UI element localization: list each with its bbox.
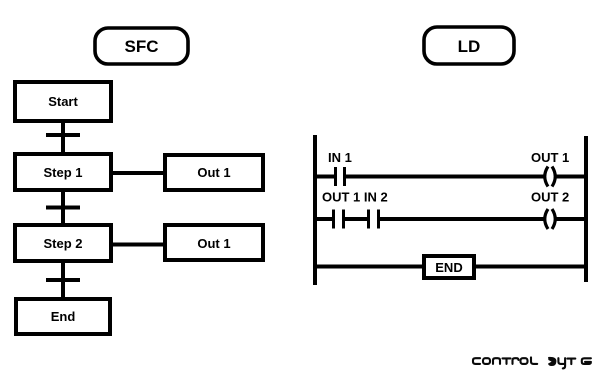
svg-text:Out 1: Out 1 <box>197 165 230 180</box>
logo letter e <box>582 358 591 364</box>
svg-text:IN 1: IN 1 <box>328 150 352 165</box>
contact OUT 1 <box>334 210 344 229</box>
logo letter c <box>473 358 480 364</box>
LD title badge <box>424 27 514 64</box>
transition T2 <box>46 206 80 210</box>
ladder right power rail <box>584 136 588 282</box>
svg-text:OUT 1: OUT 1 <box>531 150 569 165</box>
step box Start <box>15 82 111 121</box>
wire Start to Step 1 <box>61 121 65 154</box>
svg-text:LD: LD <box>458 37 481 56</box>
rung 3 wire left <box>313 265 424 269</box>
svg-text:Step 2: Step 2 <box>43 236 82 251</box>
svg-text:Step 1: Step 1 <box>43 165 82 180</box>
logo letter l <box>531 357 537 364</box>
transition T1 <box>46 133 80 137</box>
logo letter r <box>513 358 519 364</box>
contact IN 1 <box>336 167 345 186</box>
ladder left power rail <box>313 135 317 285</box>
svg-text:SFC: SFC <box>125 37 159 56</box>
logo control byte <box>473 357 591 368</box>
wire Step 2 to Out 1 <box>111 243 167 247</box>
svg-text:OUT 2: OUT 2 <box>531 190 569 205</box>
step box Step 1 <box>15 154 111 190</box>
action box Out 1 (upper) <box>165 155 263 190</box>
logo letter o <box>521 358 528 364</box>
step box Step 2 <box>15 225 111 261</box>
contact IN 2 <box>369 210 379 229</box>
coil OUT 2 <box>545 209 556 229</box>
step box End <box>16 299 110 334</box>
svg-text:END: END <box>435 260 462 275</box>
wire Step 1 to Step 2 <box>61 190 65 225</box>
logo letter t <box>503 358 511 364</box>
wire Step 1 to Out 1 <box>111 171 167 175</box>
logo letter b (bite mark) <box>548 357 556 366</box>
svg-text:Start: Start <box>48 94 78 109</box>
svg-text:End: End <box>51 309 76 324</box>
logo letter y <box>558 358 565 368</box>
SFC title badge <box>95 28 188 64</box>
logo letter n <box>493 358 500 364</box>
logo letter o <box>483 358 490 364</box>
svg-text:OUT 1 IN 2: OUT 1 IN 2 <box>322 190 388 205</box>
transition T3 <box>46 278 80 282</box>
rung 1 wire <box>313 175 588 179</box>
logo letter t <box>567 359 575 365</box>
rung 2 wire <box>313 217 588 221</box>
action box Out 1 (lower) <box>165 225 263 260</box>
wire Step 2 to End <box>61 261 65 299</box>
coil OUT 1 <box>545 167 556 187</box>
rung 3 wire right <box>474 265 588 269</box>
END box <box>424 256 474 278</box>
svg-text:Out 1: Out 1 <box>197 236 230 251</box>
